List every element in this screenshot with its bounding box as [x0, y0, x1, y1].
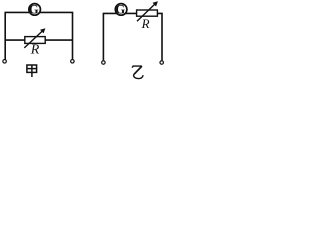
rheostat R2 body (right circuit): [137, 10, 158, 16]
wire: left circuit right vertical: [72, 12, 74, 59]
terminal: left circuit right: [71, 60, 75, 64]
rheostat R2 arrow: [137, 1, 158, 21]
rheostat R1 arrow: [24, 28, 45, 48]
galvanometer G (left circuit): [29, 2, 41, 16]
svg-text:G: G: [29, 2, 39, 16]
svg-text:R: R: [30, 43, 40, 58]
wire: right circuit top horizontal: [103, 12, 163, 14]
label 乙 (right circuit): [132, 66, 143, 79]
svg-text:R: R: [141, 16, 150, 31]
svg-text:G: G: [115, 2, 125, 16]
wire: left circuit top horizontal: [5, 11, 74, 13]
wire: right circuit left vertical: [102, 13, 104, 60]
terminal: right circuit right: [160, 61, 164, 65]
wire: left circuit middle horizontal: [5, 39, 72, 41]
terminal: right circuit left: [102, 61, 106, 65]
label 甲 (left circuit): [27, 65, 37, 77]
terminal: left circuit left: [3, 60, 7, 64]
rheostat R1 body (left circuit): [25, 37, 45, 44]
wire: right circuit right vertical: [161, 13, 163, 60]
wire: left circuit left vertical: [4, 12, 6, 59]
galvanometer G (right circuit): [115, 2, 127, 16]
